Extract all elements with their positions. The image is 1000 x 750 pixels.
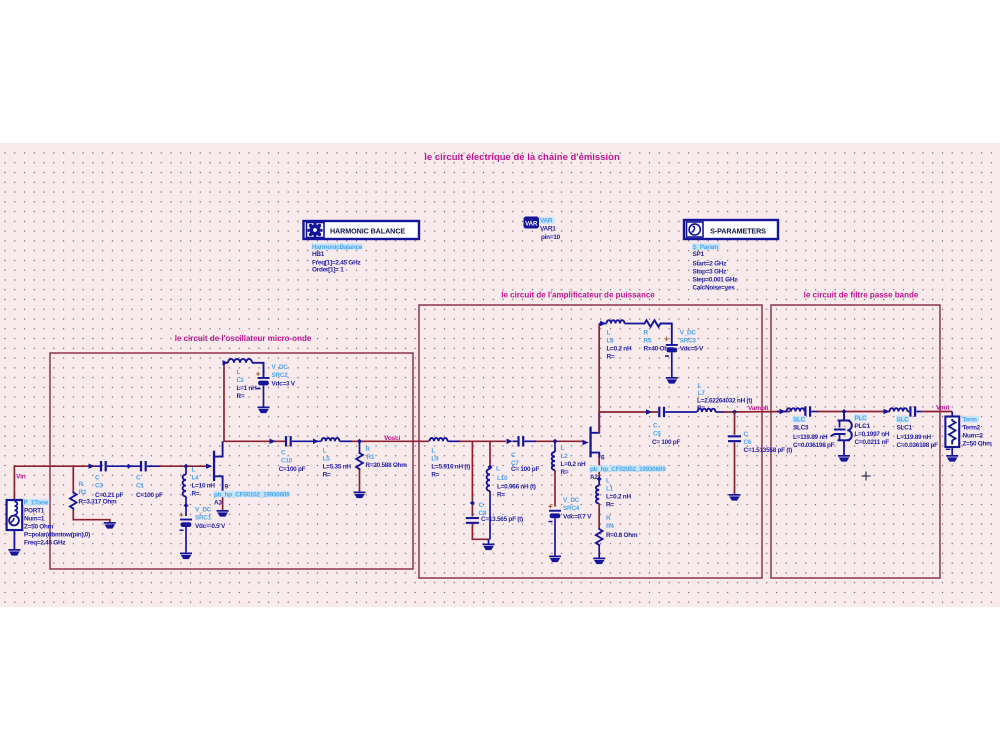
- svg-text:R=: R=: [497, 492, 505, 499]
- svg-text:SLC1: SLC1: [897, 425, 913, 432]
- svg-text:C1: C1: [136, 483, 144, 490]
- capacitor C3: [95, 461, 129, 471]
- svg-text:L: L: [431, 448, 435, 455]
- collector feed wire vertical: [223, 363, 225, 442]
- resistor R5: [644, 320, 662, 327]
- svg-text:Stop=3 GHz: Stop=3 GHz: [693, 269, 727, 276]
- svg-text:V_DC: V_DC: [195, 507, 212, 514]
- svg-text:C6: C6: [744, 439, 752, 446]
- L3 labels: [237, 369, 258, 400]
- svg-text:Vout: Vout: [936, 405, 950, 412]
- svg-text:L=0.966 nH (t): L=0.966 nH (t): [497, 484, 536, 491]
- svg-text:C=0.21 pF: C=0.21 pF: [95, 492, 123, 499]
- svg-text:R=: R=: [237, 393, 245, 400]
- svg-text:R=: R=: [606, 502, 614, 509]
- ground under Term2: [946, 455, 958, 462]
- svg-text:R4: R4: [606, 523, 614, 530]
- ground under SRC2: [258, 407, 270, 414]
- svg-text:R=20.588 Ohm: R=20.588 Ohm: [366, 462, 408, 469]
- ground under C6: [729, 494, 741, 501]
- svg-text:L=1 nH: L=1 nH: [237, 385, 258, 392]
- PLC1 labels: [854, 414, 890, 446]
- S-PARAMETERS controller block: [684, 220, 778, 239]
- L8 labels: [607, 330, 632, 361]
- junction dot emitter: [597, 477, 602, 482]
- svg-text:L: L: [237, 369, 241, 376]
- wire Vin vertical: [13, 466, 15, 500]
- resistor R4: [596, 528, 603, 558]
- output wire: [599, 411, 658, 413]
- S-PARAM labels: [692, 243, 737, 291]
- svg-text:L4: L4: [192, 475, 200, 482]
- svg-text:R: R: [644, 330, 649, 337]
- SRC1 labels: [195, 507, 226, 531]
- svg-text:C: C: [744, 431, 749, 438]
- svg-text:+: +: [179, 511, 184, 520]
- svg-text:R=: R=: [431, 472, 439, 479]
- svg-text:L5: L5: [323, 456, 331, 463]
- HARMONIC BALANCE controller block: [304, 221, 420, 239]
- wire base horizontal: [14, 465, 96, 467]
- svg-text:R=: R=: [192, 491, 200, 498]
- svg-text:C10: C10: [281, 458, 293, 465]
- svg-text:A3: A3: [214, 500, 222, 507]
- svg-text:SRC4: SRC4: [563, 505, 580, 512]
- svg-text:C: C: [479, 502, 484, 509]
- ground under C8: [483, 544, 495, 551]
- R1 labels: [366, 446, 408, 469]
- svg-text:C3: C3: [95, 483, 103, 490]
- svg-text:C= 100 pF: C= 100 pF: [652, 439, 680, 446]
- svg-text:R2: R2: [79, 489, 87, 496]
- svg-text:le circuit de filtre passe ban: le circuit de filtre passe bande: [804, 291, 919, 300]
- termination Term2: [945, 412, 959, 456]
- svg-text:VAR1: VAR1: [540, 226, 556, 233]
- svg-text:L7: L7: [698, 390, 706, 397]
- inductor L2 branch: [552, 441, 555, 506]
- svg-text:C= 100 pF: C= 100 pF: [511, 466, 539, 473]
- svg-text:L=0.2 nH: L=0.2 nH: [561, 461, 586, 468]
- svg-text:R=: R=: [561, 469, 569, 476]
- rail wire: [625, 323, 644, 325]
- svg-text:Num=1: Num=1: [24, 516, 45, 523]
- svg-text:R=: R=: [697, 405, 705, 412]
- ground under R1: [354, 492, 366, 499]
- svg-text:Order[1]= 1: Order[1]= 1: [312, 267, 344, 274]
- battery SRC4: [548, 502, 561, 556]
- junction arrow: [313, 439, 319, 444]
- svg-text:L: L: [698, 383, 702, 390]
- svg-text:P_1Tone: P_1Tone: [24, 500, 49, 507]
- C1 labels: [136, 475, 163, 500]
- svg-text:Step=0.001 GHz: Step=0.001 GHz: [693, 277, 738, 284]
- resistor R1 branch: [356, 441, 363, 491]
- ground under R4: [593, 558, 605, 565]
- svg-text:pb_hp_CF02002_19930609: pb_hp_CF02002_19930609: [590, 466, 666, 473]
- svg-text:L=2.62264032 nH (t): L=2.62264032 nH (t): [697, 398, 752, 405]
- svg-text:9: 9: [225, 484, 229, 491]
- svg-text:L: L: [192, 467, 196, 474]
- svg-text:L: L: [496, 466, 500, 473]
- inductor L1: [596, 479, 599, 528]
- junction arrow: [646, 409, 652, 414]
- svg-text:L: L: [607, 330, 611, 337]
- C3 labels: [95, 475, 123, 500]
- oscillator sub-circuit box: [50, 353, 413, 569]
- C5 labels: [652, 423, 680, 447]
- svg-text:SLC: SLC: [897, 417, 910, 424]
- ground under R2: [104, 522, 116, 529]
- svg-text:C=100 pF: C=100 pF: [279, 466, 306, 473]
- svg-text:C: C: [136, 475, 141, 482]
- svg-text:A2: A2: [590, 474, 598, 481]
- capacitor C10: [285, 436, 322, 446]
- svg-text:PLC1: PLC1: [855, 423, 871, 430]
- collector feed vertical: [598, 324, 600, 434]
- inductor L3: [223, 359, 264, 377]
- transistor Q A2: [589, 412, 599, 479]
- svg-text:V_DC: V_DC: [563, 497, 580, 504]
- svg-text:SRC3: SRC3: [680, 338, 697, 345]
- svg-text:Freq=2.45 GHz: Freq=2.45 GHz: [24, 540, 65, 547]
- SRC4 labels: [563, 497, 592, 521]
- SRC3 labels: [680, 330, 704, 353]
- svg-text:VAR: VAR: [540, 218, 553, 225]
- svg-text:C: C: [281, 450, 286, 457]
- L2 labels: [561, 445, 586, 476]
- wire to base: [536, 440, 583, 442]
- svg-text:HARMONIC BALANCE: HARMONIC BALANCE: [330, 227, 405, 236]
- junction arrow: [507, 439, 513, 444]
- junction dot: [184, 503, 189, 508]
- svg-text:V_DC: V_DC: [680, 330, 697, 337]
- svg-text:C=100 pF: C=100 pF: [136, 492, 163, 499]
- parallel LC PLC1 branch: [831, 412, 852, 456]
- L10 labels: [496, 466, 536, 499]
- battery SRC3: [664, 335, 678, 378]
- svg-text:R1: R1: [367, 454, 375, 461]
- junction PLC1: [842, 409, 847, 414]
- svg-text:C: C: [95, 475, 100, 482]
- ground under PORT1: [8, 549, 20, 556]
- junction arrow: [270, 439, 276, 444]
- svg-text:L3: L3: [237, 377, 245, 384]
- svg-text:le circuit de l'amplificateur: le circuit de l'amplificateur de puissan…: [501, 291, 655, 300]
- ground under A3 emitter: [217, 510, 229, 517]
- inductor L7: [698, 409, 725, 412]
- svg-text:C=0.036198 pF: C=0.036198 pF: [793, 442, 835, 449]
- svg-text:+: +: [548, 502, 553, 511]
- L1 labels: [606, 478, 631, 509]
- cross mark: [862, 472, 871, 481]
- wire to term: [921, 411, 952, 413]
- L5 labels: [323, 448, 352, 479]
- svg-text:P=polar(dbmtow(pin),0): P=polar(dbmtow(pin),0): [24, 532, 90, 539]
- svg-text:Z=50 Ohm: Z=50 Ohm: [963, 441, 993, 448]
- R4 labels: [606, 515, 638, 539]
- svg-text:Vdc=-0.5 V: Vdc=-0.5 V: [195, 523, 226, 530]
- resistor R2 branch: [72, 466, 74, 491]
- svg-text:PORT1: PORT1: [24, 508, 45, 515]
- capacitor C6 branch: [728, 412, 741, 494]
- svg-text:SLC3: SLC3: [793, 425, 809, 432]
- svg-text:R5: R5: [644, 338, 652, 345]
- svg-text:L=10 nH: L=10 nH: [192, 483, 216, 490]
- svg-text:R=: R=: [607, 354, 615, 361]
- battery SRC2: [256, 370, 270, 407]
- svg-text:C=13.565 pF (t): C=13.565 pF (t): [481, 516, 523, 523]
- wire to filter: [724, 411, 790, 414]
- svg-text:L9: L9: [431, 456, 439, 463]
- junction L2: [553, 439, 558, 444]
- svg-text:L=5.35 nH: L=5.35 nH: [323, 464, 352, 471]
- battery SRC1: [179, 511, 192, 553]
- ground under SRC1: [180, 553, 192, 560]
- svg-text:VAR: VAR: [525, 221, 538, 227]
- L4 labels: [192, 467, 216, 498]
- A3 model labels: [214, 491, 291, 507]
- svg-text:Vosci: Vosci: [384, 435, 400, 442]
- svg-text:L=5.916 nH (t): L=5.916 nH (t): [431, 464, 470, 471]
- VAR block: [524, 217, 539, 228]
- svg-text:R=: R=: [323, 472, 331, 479]
- svg-text:S_Param: S_Param: [693, 244, 719, 251]
- svg-text:L2: L2: [561, 453, 569, 460]
- output wire: [224, 440, 285, 442]
- amplifier sub-circuit box: [419, 305, 762, 578]
- junction L4: [184, 464, 189, 469]
- C8 labels: [479, 502, 524, 523]
- SLC1 labels: [896, 416, 938, 449]
- svg-text:Z=50 Ohm: Z=50 Ohm: [24, 524, 54, 531]
- SLC3 labels: [793, 416, 835, 449]
- svg-text:SP1: SP1: [693, 251, 705, 258]
- svg-text:L=119.89 nH: L=119.89 nH: [793, 434, 828, 441]
- top rail lead: [599, 323, 606, 325]
- inductor L4 branch: [183, 466, 186, 516]
- svg-text:PLC: PLC: [855, 415, 868, 422]
- ground under SRC3: [666, 377, 678, 384]
- transistor Q A3: [213, 441, 223, 510]
- svg-text:pb_hp_CF00102_19930609: pb_hp_CF00102_19930609: [214, 492, 290, 499]
- schematic sheet background: [0, 143, 1000, 607]
- svg-text:R: R: [79, 481, 84, 488]
- junction dot: [488, 465, 493, 470]
- svg-text:L: L: [606, 478, 610, 485]
- svg-text:+: +: [664, 335, 669, 344]
- svg-text:Vdc=0.7 V: Vdc=0.7 V: [563, 514, 592, 521]
- junction arrow: [89, 464, 95, 469]
- ground under PLC1: [838, 455, 850, 462]
- PORT1 labels: [23, 499, 90, 547]
- VAR labels: [540, 217, 561, 241]
- svg-text:V_DC: V_DC: [272, 364, 289, 371]
- junction C6: [732, 410, 737, 415]
- svg-text:L: L: [323, 448, 327, 455]
- svg-text:Num=2: Num=2: [963, 433, 984, 440]
- svg-text:le circuit de l'oscillateur mi: le circuit de l'oscillateur micro-onde: [175, 334, 312, 343]
- junction R1: [357, 439, 362, 444]
- ground under SRC4: [549, 556, 561, 563]
- svg-text:R: R: [606, 515, 611, 522]
- C7 labels: [511, 452, 539, 473]
- series LC SLC1: [890, 406, 922, 416]
- R5 labels: [644, 330, 674, 353]
- svg-text:C: C: [653, 423, 658, 430]
- svg-text:L1: L1: [606, 486, 614, 493]
- svg-text:pin=10: pin=10: [541, 234, 561, 241]
- svg-text:HB1: HB1: [312, 251, 325, 258]
- port PORT1: [7, 500, 23, 549]
- A2 model labels: [590, 465, 667, 481]
- base arrow: [583, 440, 589, 445]
- L7 labels: [697, 383, 752, 413]
- capacitor C1: [129, 461, 161, 471]
- wire to base: [160, 465, 206, 467]
- svg-text:L=119.89 nH: L=119.89 nH: [897, 434, 932, 441]
- svg-text:le circuit électrique de la ch: le circuit électrique de la chaine d'émi…: [424, 152, 620, 163]
- wire to amplifier: [352, 440, 429, 442]
- svg-text:L8: L8: [607, 338, 615, 345]
- svg-text:L=0.2 nH: L=0.2 nH: [607, 346, 632, 353]
- svg-text:R: R: [366, 446, 371, 453]
- svg-text:C5: C5: [653, 431, 661, 438]
- inductor L5: [322, 438, 353, 441]
- wire after L9: [460, 440, 506, 442]
- svg-text:R=3.317 Ohm: R=3.317 Ohm: [79, 499, 117, 506]
- svg-text:SRC2: SRC2: [272, 372, 289, 379]
- svg-text:S-PARAMETERS: S-PARAMETERS: [710, 227, 766, 236]
- svg-text:Vampli: Vampli: [748, 405, 768, 412]
- svg-text:L: L: [561, 445, 565, 452]
- C10 labels: [279, 450, 306, 474]
- svg-text:6: 6: [601, 455, 605, 462]
- capacitor C5: [658, 407, 697, 417]
- svg-text:R=0.8 Ohm: R=0.8 Ohm: [606, 532, 638, 539]
- svg-text:HarmonicBalance: HarmonicBalance: [312, 244, 363, 251]
- base arrow: [206, 464, 212, 469]
- rail wire to SRC3: [662, 324, 672, 345]
- series LC SLC3: [777, 406, 818, 416]
- band-pass filter sub-circuit box: [771, 305, 940, 578]
- Term2 labels: [962, 416, 992, 448]
- C6 labels: [744, 431, 793, 454]
- L9 labels: [431, 448, 470, 479]
- svg-text:SLC: SLC: [793, 417, 806, 424]
- wire: [818, 411, 890, 413]
- inductor L10 branch: [487, 441, 490, 539]
- svg-text:Term: Term: [963, 417, 978, 424]
- svg-text:CalcNoise=yes: CalcNoise=yes: [693, 285, 736, 292]
- svg-text:C=1.513558 pF (t): C=1.513558 pF (t): [744, 447, 793, 454]
- svg-text:Vin: Vin: [16, 474, 26, 481]
- svg-text:L10: L10: [497, 475, 508, 482]
- svg-text:C: C: [511, 452, 516, 459]
- svg-text:Vdc=5 V: Vdc=5 V: [680, 346, 704, 353]
- svg-text:C=0.0211 nF: C=0.0211 nF: [855, 439, 890, 446]
- capacitor C7: [513, 436, 537, 446]
- capacitor C8 branch: [466, 441, 490, 543]
- svg-text:SRC1: SRC1: [195, 515, 212, 522]
- inductor L9: [430, 438, 461, 441]
- inductor L8: [607, 320, 625, 323]
- svg-text:L=0.2 nH: L=0.2 nH: [606, 494, 631, 501]
- SRC2 labels: [272, 364, 296, 388]
- R2 labels: [79, 481, 117, 506]
- svg-text:Freq[1]=2.45 GHz: Freq[1]=2.45 GHz: [312, 260, 360, 267]
- svg-text:L=0.1997 nH: L=0.1997 nH: [855, 431, 890, 438]
- junction dot: [126, 464, 131, 469]
- svg-text:C=0.036198 pF: C=0.036198 pF: [897, 442, 939, 449]
- HB labels: [312, 243, 363, 273]
- svg-text:Vdc=3 V: Vdc=3 V: [272, 381, 296, 388]
- svg-text:Term2: Term2: [963, 425, 981, 432]
- svg-text:Start=2 GHz: Start=2 GHz: [693, 261, 727, 268]
